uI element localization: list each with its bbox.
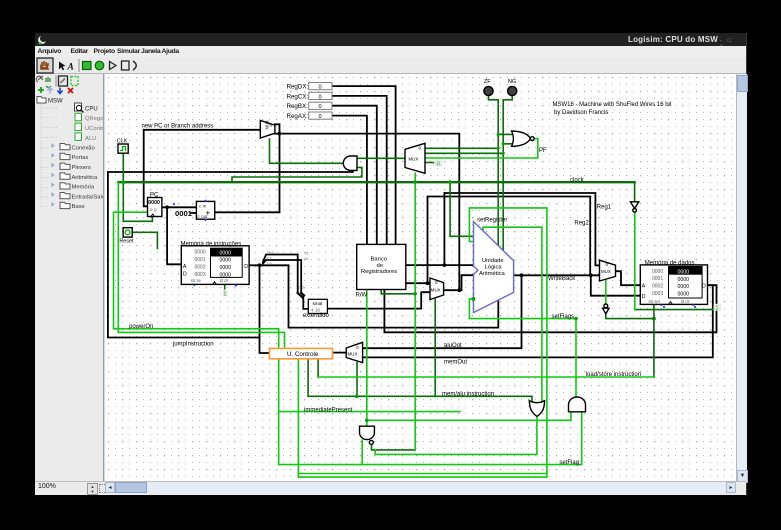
junction bus x450 (448, 180, 452, 184)
svg-text:2:0: 2:0 (267, 262, 272, 266)
wire Banco outA to ALU A (406, 264, 474, 266)
tree folder Memoria (52, 182, 95, 190)
wire NAND out (372, 444, 416, 450)
junction RAM control (652, 317, 656, 321)
svg-text:A: A (67, 63, 74, 73)
svg-text:Banco: Banco (371, 256, 387, 262)
wire PC Q to adder and ROM A (162, 207, 197, 264)
svg-text:ld clr: ld clr (681, 299, 690, 304)
tree folder Conexao (52, 143, 95, 151)
and-gate setFlag AND2 (faces up) (569, 397, 586, 412)
wire NAND bottom input from setFlag line (361, 440, 363, 464)
svg-text:PC: PC (150, 192, 159, 198)
mux MUX1 (260, 120, 275, 138)
svg-text:UControl: UControl (85, 126, 103, 132)
svg-text:Unidade: Unidade (482, 258, 504, 264)
wire RegDX (332, 86, 396, 244)
wire RAM control net (606, 304, 654, 377)
svg-text:setFlag: setFlag (559, 460, 579, 466)
adder (196, 201, 214, 219)
ram Memoria de dados (640, 265, 707, 305)
wire RegCX (332, 96, 387, 245)
probe RegCX (309, 92, 332, 99)
wire inverter clock out (634, 212, 636, 310)
svg-text:D: D (642, 294, 646, 300)
junction CLK bus (122, 180, 126, 184)
svg-text:extendido: extendido (303, 313, 330, 319)
wire MUX2 const 0 stub (425, 162, 434, 164)
svg-text:0001: 0001 (175, 209, 193, 218)
wire clock long vertical (414, 173, 416, 450)
wire jumpInstruction (108, 172, 260, 338)
nor-gate PF NOR (512, 131, 531, 146)
svg-text:NG: NG (508, 79, 516, 85)
wire clock to inverter (634, 182, 636, 202)
nand-gate NAND1 (faces down) (360, 426, 375, 439)
svg-text:MSW: MSW (48, 99, 63, 105)
svg-text:0000: 0000 (195, 250, 206, 256)
pin dot PC en (173, 203, 175, 205)
svg-text:0003: 0003 (195, 272, 206, 278)
wire setRegister inner loop to OR gate (483, 227, 542, 401)
svg-text:0000: 0000 (652, 269, 663, 275)
svg-text:0001: 0001 (652, 276, 663, 282)
alu Unidade Logica Aritmetica (474, 222, 514, 313)
wire memOut (363, 285, 713, 357)
svg-text:0: 0 (435, 280, 438, 285)
pin dot RAM clr (694, 306, 696, 308)
svg-text:Reset: Reset (119, 239, 134, 245)
or-gate OR2 (faces down) (529, 401, 544, 417)
svg-text:Plexers: Plexers (72, 165, 91, 171)
svg-text:0: 0 (606, 262, 609, 267)
wire Banco outA branch vertical (443, 193, 445, 265)
tree circuit ALU (75, 133, 82, 141)
svg-text:MUX: MUX (601, 269, 611, 274)
svg-text:15:9: 15:9 (267, 251, 274, 255)
wire Banco writeback loop (384, 285, 716, 332)
wire WriteBack to RAM D in (591, 275, 641, 295)
svg-text:0: 0 (437, 161, 440, 167)
mux MUX3 (430, 278, 444, 300)
svg-text:Base: Base (72, 204, 85, 210)
svg-text:0: 0 (319, 104, 322, 110)
junction bus x415 (413, 180, 417, 184)
wire ld const 1 (635, 309, 714, 311)
svg-text:RegAX:: RegAX: (287, 113, 309, 120)
svg-text:MSW16 - Machine with ShuFled W: MSW16 - Machine with ShuFled Wires 16 bi… (553, 102, 672, 108)
wire splitter trunk to sinal extendido (298, 293, 304, 298)
svg-text:powerOn: powerOn (129, 324, 153, 330)
tool hand green (95, 61, 104, 70)
svg-text:0: 0 (356, 345, 359, 350)
wire setRegister loop (298, 208, 547, 474)
junction RW (413, 292, 417, 296)
svg-text:mem/alu instruction: mem/alu instruction (442, 392, 494, 398)
svg-text:Lógica: Lógica (485, 265, 503, 271)
svg-text:MUX: MUX (348, 351, 358, 356)
wire new PC or Branch address (144, 130, 261, 207)
svg-text:D Q: D Q (150, 207, 157, 212)
junction ROM D (258, 263, 262, 267)
wire 0001 constant stub (191, 212, 196, 214)
svg-text:MUX: MUX (409, 157, 419, 162)
svg-text:RegDX:: RegDX: (287, 84, 309, 91)
svg-text:memOut: memOut (444, 359, 467, 365)
svg-text:0000: 0000 (220, 250, 232, 256)
wire NAND to OR link (375, 416, 537, 454)
wire sinal extendido output to MUX3 in2 (327, 292, 430, 308)
svg-text:CPU: CPU (85, 106, 98, 112)
and-gate select AND (faces left) (343, 156, 357, 170)
junction NAND top (365, 419, 369, 423)
wire MUX5 out to U.Controle (333, 352, 347, 354)
svg-text:Memória: Memória (72, 185, 95, 191)
tree folder Aritmetica (52, 173, 99, 181)
tree folder Plexers (52, 163, 91, 171)
wire RegAX (332, 116, 367, 245)
svg-text:Aritmética: Aritmética (72, 175, 99, 181)
wire MUX2 out to AND inputs (357, 157, 405, 159)
wire mem/alu instruction (308, 359, 532, 401)
junction WriteBack (589, 273, 593, 277)
svg-text:A: A (183, 264, 187, 270)
tool play (110, 62, 117, 70)
wire MUX4 select riser (605, 280, 607, 304)
junction MUX1 out (278, 132, 282, 136)
svg-text:load/store instruction: load/store instruction (586, 372, 641, 378)
tool chip green (83, 62, 92, 70)
wire ROM sel stub (224, 285, 226, 290)
svg-text:51: 51 (305, 257, 309, 261)
wire Banco outB to MUX3 in1 (406, 282, 430, 284)
inverter INV2 (faces down) (604, 304, 608, 308)
clock CLK component (118, 144, 128, 153)
svg-text:0000: 0000 (148, 200, 160, 206)
pin ALU flags (472, 297, 475, 300)
svg-text:c out: c out (198, 214, 209, 219)
svg-text:CLK: CLK (117, 139, 128, 145)
pin Reset (123, 228, 132, 237)
svg-text:Portas: Portas (72, 155, 89, 161)
svg-text:0: 0 (419, 146, 422, 151)
svg-text:str sel: str sel (649, 299, 660, 304)
const 0 MUX2 (435, 160, 443, 167)
wire MUX4 out to RAM A (616, 271, 641, 285)
wire MUX5 select (356, 363, 358, 397)
wire splitter leg1 (263, 255, 298, 294)
svg-text:0: 0 (319, 114, 322, 120)
wire loadstore instruction (318, 376, 654, 378)
wire powerOn2 net (118, 182, 284, 348)
tree folder Entrada/Saida (52, 192, 110, 200)
inverter clock INV1 (faces down) (630, 202, 638, 209)
wire Reset (132, 232, 157, 248)
tree folder Base (52, 202, 85, 210)
wire Banco WE to NAND (367, 290, 571, 427)
svg-text:clock: clock (570, 178, 585, 184)
pin dot adder cin (204, 200, 206, 202)
junction ZF2 (497, 147, 500, 150)
junction NG1 (502, 142, 505, 145)
wire MUX3 select riser (434, 300, 436, 397)
junction PC out (165, 205, 169, 209)
pin dot ROM clr (235, 284, 237, 286)
wire powerOn net (114, 212, 582, 464)
register PC (148, 198, 162, 217)
junction aluOut (520, 273, 524, 277)
svg-text:Reg1: Reg1 (597, 205, 612, 211)
controller U. Controle (270, 348, 333, 358)
wire clock bus (118, 181, 634, 183)
ordering buttons (38, 87, 44, 93)
project toolbar row (36, 76, 43, 82)
svg-text:PF: PF (539, 148, 547, 154)
svg-text:1: 1 (715, 306, 718, 312)
wire ZF net (425, 96, 512, 247)
wire MUX1 output to adder loop (215, 124, 280, 212)
tree root MSW (37, 97, 46, 104)
wire ALU out WriteBack (514, 274, 600, 276)
svg-text:0: 0 (319, 85, 322, 91)
wire R/W (381, 290, 415, 294)
wire setRegister loop lower double (298, 474, 547, 478)
clock glyph inside CLK (121, 147, 126, 151)
svg-text:0001: 0001 (195, 257, 206, 263)
svg-text:WriteBack: WriteBack (548, 276, 576, 282)
svg-text:D: D (244, 264, 248, 270)
tool poke (selected) (37, 58, 53, 73)
svg-text:U. Controle: U. Controle (287, 351, 319, 358)
logisim window icon (38, 35, 48, 45)
const 1 ROM sel (222, 290, 227, 297)
wire CLK pin drop (123, 153, 152, 221)
svg-text:Registradores: Registradores (361, 269, 397, 275)
register-file Banco de Registradores (357, 244, 406, 289)
wire clock tap to AND in2 (232, 167, 362, 182)
svg-text:Entrada/Saída: Entrada/Saída (72, 194, 104, 200)
sign-extend sinal extendido (308, 299, 327, 313)
svg-text:jumpInstruction: jumpInstruction (172, 342, 214, 348)
svg-text:Reg2: Reg2 (574, 221, 589, 227)
svg-text:by Davidson Francis: by Davidson Francis (554, 110, 608, 116)
wire NG net (425, 96, 512, 251)
wire Reg2 (428, 197, 591, 284)
mux MUX2 (405, 143, 425, 173)
svg-text:0002: 0002 (652, 284, 663, 290)
svg-text:0000: 0000 (220, 265, 232, 271)
svg-text:QRegs: QRegs (85, 116, 103, 122)
junction Banco outA (443, 263, 447, 267)
wire immediatePresent (279, 411, 460, 413)
svg-text:setRegister: setRegister (477, 217, 507, 223)
svg-text:D: D (183, 272, 187, 278)
wire black top line to AND area (108, 169, 353, 172)
rom Memoria de instrucoes (181, 246, 249, 285)
wire RegBX (332, 106, 377, 245)
wire Reg1 (444, 193, 599, 265)
tool page (122, 61, 130, 70)
wire setFlags net (469, 299, 576, 397)
svg-text:RegCX:: RegCX: (287, 93, 309, 100)
svg-text:aluOut: aluOut (444, 343, 462, 349)
svg-text:D: D (702, 283, 706, 289)
svg-text:0000: 0000 (678, 269, 690, 275)
wire AND out to MUX1 select (270, 139, 343, 163)
wire splitter leg3 opcode (261, 265, 498, 327)
svg-text:Aritmética: Aritmética (479, 271, 506, 277)
mux MUX4 (600, 260, 616, 281)
mux MUX5 (346, 342, 362, 362)
svg-text:0000: 0000 (678, 292, 690, 298)
svg-text:Memória de instruções: Memória de instruções (181, 241, 242, 247)
svg-text:Conexão: Conexão (72, 145, 95, 151)
svg-text:1: 1 (223, 291, 226, 297)
wire MUX3 out to ALU B (459, 275, 473, 290)
svg-text:0: 0 (270, 123, 273, 128)
wire aluOut (363, 275, 522, 348)
svg-text:0000: 0000 (220, 258, 232, 264)
svg-text:new PC or Branch address: new PC or Branch address (142, 123, 214, 129)
wire splitter leg2 (263, 260, 301, 293)
svg-text:R/W: R/W (356, 292, 368, 298)
svg-text:ALU: ALU (85, 136, 96, 142)
tree circuit QRegs (75, 113, 82, 121)
separator (79, 59, 80, 72)
junction setFlags (574, 317, 578, 321)
pin NG (508, 86, 517, 95)
svg-text:sinal: sinal (313, 301, 323, 307)
svg-text:setFlags: setFlags (552, 314, 575, 320)
svg-text:0:2: 0:2 (299, 286, 304, 290)
svg-text:51: 51 (305, 251, 309, 255)
svg-text:0002: 0002 (195, 264, 206, 270)
probe RegBX (309, 102, 332, 109)
svg-text:RegBX:: RegBX: (287, 103, 309, 110)
svg-text:immediatePresent: immediatePresent (304, 408, 353, 414)
tool D shape (133, 61, 136, 70)
svg-text:A: A (642, 283, 646, 289)
pin ZF (484, 86, 493, 95)
tree circuit UControl (75, 123, 82, 131)
wire ROM D output to U.Controle (248, 265, 270, 353)
junction mem/alu (355, 395, 359, 399)
wire ALU clk tap (450, 182, 473, 236)
probe RegAX (309, 112, 332, 119)
pin dot adder cout (204, 219, 206, 221)
svg-text:MUX: MUX (431, 287, 441, 292)
svg-text:ZF: ZF (484, 79, 491, 85)
svg-text:Memória de dados: Memória de dados (645, 261, 695, 267)
junction MUX3 out (457, 288, 461, 292)
probe RegDX (309, 83, 332, 90)
svg-text:0: 0 (319, 94, 322, 100)
svg-text:0000: 0000 (678, 284, 690, 290)
svg-text:str se: str se (191, 278, 202, 283)
svg-text:0003: 0003 (652, 291, 663, 297)
tree folder Portas (52, 153, 89, 161)
svg-text:de: de (377, 263, 383, 269)
junction ZF1 (497, 133, 500, 136)
tree lines (41, 104, 59, 148)
svg-text:ld clr: ld clr (220, 278, 229, 283)
const 1 RAM ld (714, 304, 722, 311)
wire loadstore riser (317, 359, 319, 377)
wire MUX1 output long bus to x459 (274, 134, 459, 291)
reset glyph (125, 230, 130, 235)
wire PF loop (425, 139, 538, 158)
tree circuit CPU (75, 103, 82, 111)
junction NG2 (502, 152, 505, 155)
svg-text:0000: 0000 (678, 277, 690, 283)
svg-text:4 16: 4 16 (311, 307, 320, 312)
pin dot RAM sel (663, 306, 665, 308)
svg-text:8:3: 8:3 (267, 257, 272, 261)
tool select arrow (59, 62, 66, 71)
junction Banco outB (426, 281, 430, 285)
